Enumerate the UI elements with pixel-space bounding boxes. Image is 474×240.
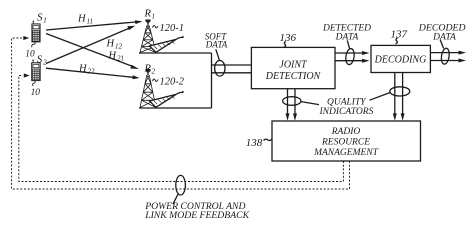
svg-text:QUALITY: QUALITY [327, 98, 367, 108]
box decoding 137 [371, 45, 430, 72]
leader squiggle S2 to 10 [33, 81, 36, 86]
svg-text:21: 21 [117, 55, 124, 63]
svg-text:2: 2 [152, 68, 156, 76]
svg-text:DATA: DATA [335, 33, 359, 43]
connector ellipse DECODED DATA [440, 48, 450, 65]
box joint detection 136 [251, 47, 335, 88]
svg-text:H: H [77, 14, 87, 25]
arrow into S1 [23, 36, 29, 40]
svg-text:R: R [144, 9, 152, 20]
connector ellipse quality left [283, 97, 301, 106]
svg-text:LINK MODE FEEDBACK: LINK MODE FEEDBACK [144, 210, 249, 221]
wire junction vertical [211, 53, 213, 108]
svg-text:S: S [37, 53, 43, 65]
connector ellipse SOFT DATA [215, 61, 225, 77]
svg-text:S: S [37, 12, 43, 24]
svg-text:INDICATORS: INDICATORS [319, 107, 374, 117]
wire JD quality 1 [287, 89, 289, 114]
wire detected data 2 [335, 60, 363, 62]
svg-text:12: 12 [115, 43, 123, 51]
leader SOFT DATA [216, 49, 220, 60]
leader power control [173, 194, 178, 204]
svg-text:138: 138 [246, 137, 263, 149]
leader tilde 120-1 [153, 26, 159, 28]
wire dashed feedback outer (RRM to S1) [12, 38, 350, 189]
connector ellipse quality right [390, 87, 410, 96]
svg-text:DATA: DATA [205, 39, 228, 49]
wire R2 baseline [139, 107, 212, 109]
svg-text:R: R [144, 64, 152, 75]
svg-text:DECODING: DECODING [374, 55, 427, 66]
box radio resource management 138 [272, 121, 421, 161]
leader quality left [301, 102, 319, 105]
wire soft data bus 2 [212, 72, 252, 74]
wire R1 baseline [139, 52, 212, 54]
svg-text:10: 10 [25, 50, 35, 60]
leader squiggle 137 [396, 38, 398, 44]
svg-text:MANAGEMENT: MANAGEMENT [313, 148, 379, 158]
svg-text:120-1: 120-1 [160, 23, 185, 34]
svg-text:DETECTION: DETECTION [265, 71, 322, 82]
svg-text:137: 137 [391, 28, 408, 40]
wire dashed feedback inner (RRM to S2) [19, 76, 344, 182]
antenna R2 tower [140, 70, 156, 108]
leader DETECTED DATA [347, 40, 349, 48]
antenna R2 feed horn [150, 91, 184, 107]
leader squiggle S1 to 10 [32, 42, 36, 47]
svg-text:RADIO: RADIO [331, 127, 361, 137]
wire H11 (S1 to R1) [46, 22, 136, 30]
svg-text:11: 11 [87, 18, 93, 26]
leader squiggle 136 [284, 42, 286, 48]
antenna R1 tower [140, 20, 156, 52]
wire H21 (S2 to R1) [46, 28, 129, 63]
svg-text:H: H [106, 39, 116, 50]
wire decoding quality 1 [394, 73, 396, 114]
wire H12 (S1 to R2) [46, 34, 133, 67]
leader squiggle 138 [264, 139, 273, 141]
svg-text:2: 2 [43, 58, 47, 66]
connector ellipse DETECTED DATA [345, 48, 355, 65]
transmitter S1 (mobile phone) [32, 21, 40, 42]
svg-text:10: 10 [31, 88, 41, 98]
wire soft data bus 1 [212, 64, 252, 66]
antenna R1 feed horn [150, 36, 184, 52]
wire detected data 1 [335, 52, 363, 54]
svg-text:DATA: DATA [432, 33, 456, 43]
wire JD quality 2 [294, 89, 296, 114]
wire H22 (S2 to R2) [46, 68, 133, 77]
svg-text:RESOURCE: RESOURCE [321, 138, 370, 148]
svg-text:1: 1 [152, 13, 156, 21]
leader quality right [370, 93, 390, 101]
wire decoded data 2 [430, 60, 458, 62]
svg-text:136: 136 [280, 32, 297, 44]
transmitter S2 (mobile phone) [32, 60, 41, 81]
connector ellipse power control [176, 175, 186, 195]
svg-text:1: 1 [43, 17, 47, 25]
svg-text:JOINT: JOINT [279, 60, 308, 71]
svg-text:22: 22 [88, 68, 96, 76]
svg-text:120-2: 120-2 [160, 77, 185, 88]
wire decoding quality 2 [402, 73, 404, 114]
leader DECODED DATA [440, 40, 443, 49]
svg-text:H: H [108, 51, 118, 62]
leader tilde 120-2 [153, 79, 159, 81]
wire decoded data 1 [430, 52, 458, 54]
arrow into S2 [24, 73, 30, 77]
svg-text:H: H [78, 64, 88, 75]
